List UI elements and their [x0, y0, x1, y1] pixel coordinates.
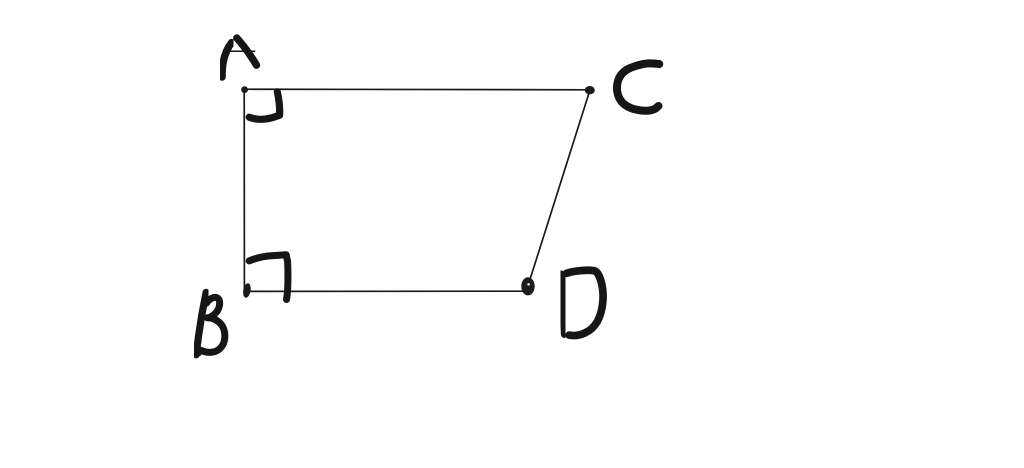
wire: bottom edge B-D — [246, 290, 524, 292]
label letter B — [194, 292, 225, 356]
wire: top edge A-C — [245, 88, 590, 91]
node A (vertex dot) — [241, 86, 248, 93]
node C (vertex dot) — [585, 86, 595, 94]
label letter D — [561, 270, 603, 335]
node D (vertex blob) — [521, 277, 534, 295]
right-angle mark at A — [249, 92, 280, 120]
wire: right slanted edge C-D — [528, 91, 590, 285]
right-angle mark at B — [249, 255, 288, 300]
label letter A — [222, 38, 256, 77]
label letter C — [617, 63, 659, 110]
node B (vertex blob) — [242, 283, 252, 299]
wire: left edge A-B — [243, 89, 245, 291]
